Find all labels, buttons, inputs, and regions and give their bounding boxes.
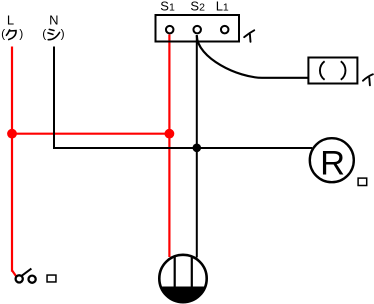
wire S2 vertical (black) to lamp [196, 35, 198, 258]
svg-text:(: ( [42, 26, 46, 40]
wire black horizontal N to R [53, 147, 312, 149]
wire S1 vertical (red) to lamp [168, 35, 170, 258]
node L (line) label [1, 12, 23, 40]
pilot lamp box [308, 58, 357, 84]
terminal S1 [166, 26, 174, 33]
wire L vertical (red) [11, 47, 13, 272]
terminal L1 [221, 26, 229, 33]
wire red bus horizontal L to S1 [12, 133, 169, 135]
junction dot black [193, 144, 202, 153]
label イ pilot lamp [363, 74, 373, 85]
switch contact circle left [16, 275, 23, 282]
label box (square) near R [358, 178, 367, 185]
svg-text:R: R [320, 144, 345, 182]
terminal S2 [193, 26, 201, 33]
svg-text:): ) [61, 26, 65, 40]
ceiling rosette left blade line [174, 255, 176, 288]
svg-text:): ) [19, 26, 23, 40]
ceiling rosette right blade line [191, 256, 193, 288]
junction dot red right [165, 129, 175, 139]
ceiling rosette circle [159, 255, 206, 302]
switch contact circle right [28, 276, 35, 283]
ceiling rosette filled base chord [161, 287, 206, 303]
wire L to switch diagonal (red) [12, 270, 16, 276]
switch lever [22, 269, 32, 276]
svg-text:(: ( [1, 26, 5, 40]
svg-text:S1: S1 [160, 0, 175, 14]
svg-text:S2: S2 [190, 0, 205, 14]
switch label box (square) [47, 275, 56, 282]
wire N vertical (black) [53, 47, 55, 150]
svg-text:L: L [7, 12, 14, 27]
svg-text:L1: L1 [216, 0, 229, 14]
node N (neutral) label [42, 12, 64, 40]
lamp receptacle R circle [310, 138, 354, 182]
pilot lamp parentheses [320, 61, 346, 80]
terminal strip box [156, 15, 240, 42]
svg-text:N: N [49, 12, 58, 27]
label イ terminal strip [244, 30, 254, 42]
junction dot red left [7, 129, 17, 139]
wire S2 curve to pilot lamp [197, 36, 309, 78]
